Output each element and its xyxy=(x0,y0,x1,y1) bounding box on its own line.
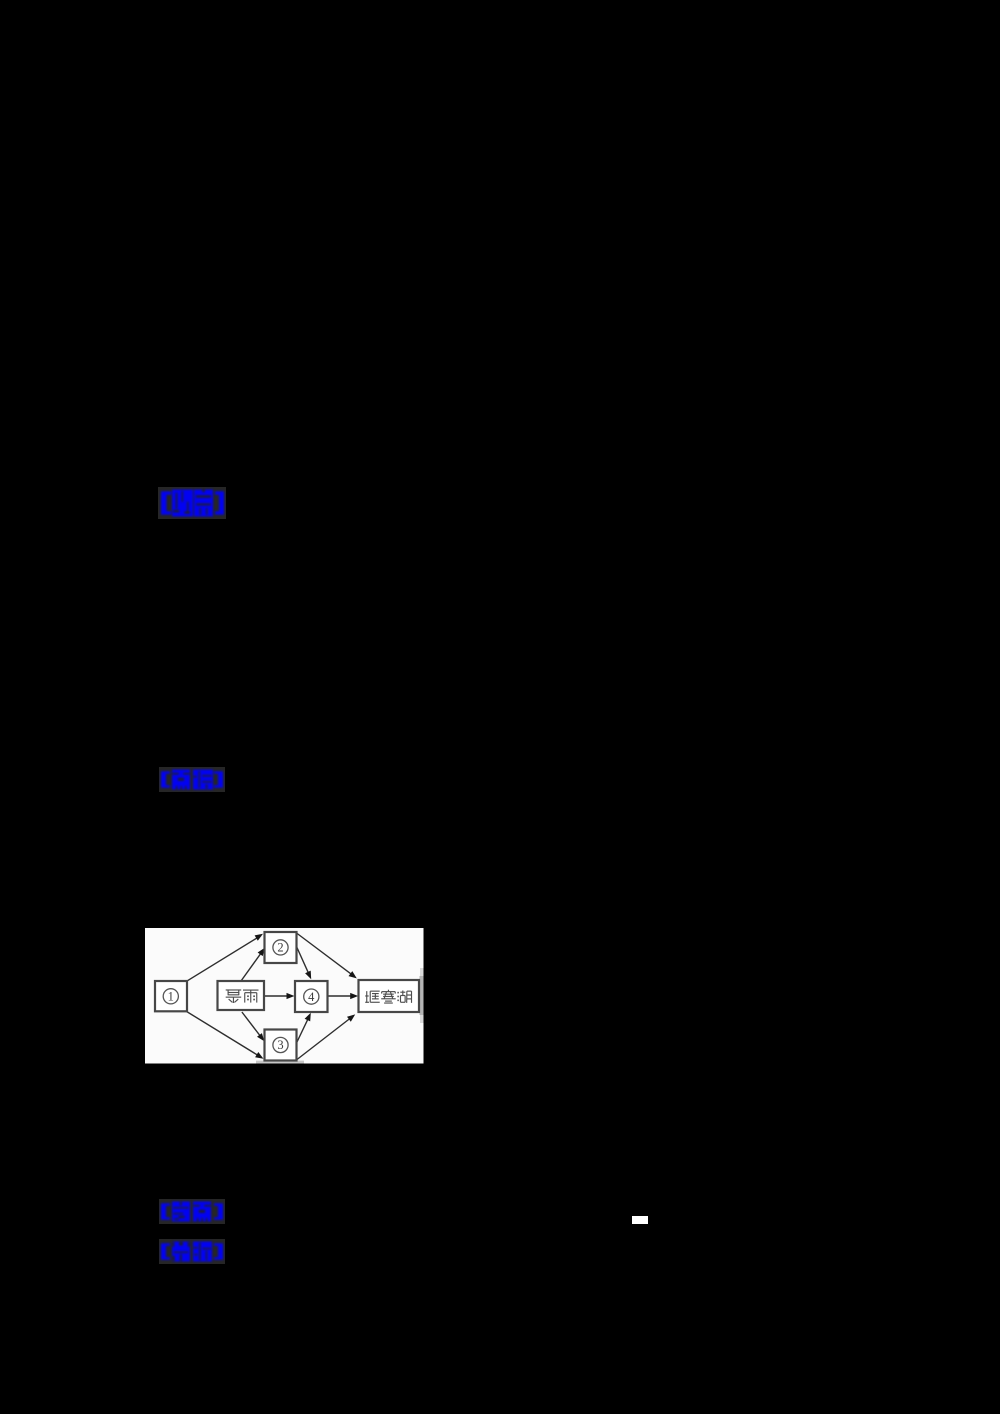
label kaodian [考点] xyxy=(159,1199,225,1224)
svg-text:4: 4 xyxy=(308,990,315,1004)
box yansaihu xyxy=(359,980,420,1012)
circled digit 3 (box3) xyxy=(273,1037,288,1052)
wire baoyu to 2 xyxy=(241,950,264,981)
wire 2 to 4 xyxy=(297,947,310,976)
svg-text:2: 2 xyxy=(277,941,283,955)
wire baoyu to 3 xyxy=(242,1012,263,1039)
wire baoyu to 4 xyxy=(264,995,291,997)
diagram white background xyxy=(145,928,424,1064)
svg-text:1: 1 xyxy=(168,990,174,1004)
gray artifact strip right of yansaihu box xyxy=(420,976,424,1015)
wire 1 to 2 xyxy=(187,936,262,982)
box 4 xyxy=(295,981,328,1012)
gray artifact strip below box 3 xyxy=(256,1061,304,1064)
circled digit 1 (box1) xyxy=(163,989,178,1004)
svg-text:3: 3 xyxy=(277,1038,283,1052)
box 3 xyxy=(265,1030,297,1061)
white dash highlight xyxy=(632,1216,648,1224)
wire 3 to yansaihu xyxy=(297,1017,353,1060)
label dianping [点评] xyxy=(159,767,225,792)
circled digit 4 (box4) xyxy=(304,989,319,1004)
box 2 xyxy=(265,932,297,963)
wire 1 to 3 xyxy=(187,1012,262,1058)
diagram: rainstorm / barrier-lake flowchart xyxy=(145,928,424,1065)
wire 3 to 4 xyxy=(297,1016,310,1043)
text baoyu in box xyxy=(226,989,242,991)
circled digit 2 (box2) xyxy=(273,940,288,955)
wire 4 to yansaihu xyxy=(328,995,355,997)
text yansaihu in box xyxy=(366,991,368,1003)
label fenxi [分析] xyxy=(159,1239,225,1264)
wire 2 to yansaihu xyxy=(297,933,355,976)
label jieda [解答] xyxy=(158,487,226,519)
box 1 xyxy=(155,981,187,1011)
box baoyu xyxy=(218,981,265,1010)
